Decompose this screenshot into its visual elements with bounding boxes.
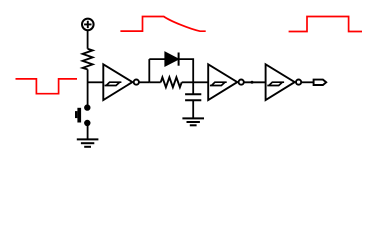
junction dot on wire: [251, 81, 254, 84]
diode D1: [165, 53, 178, 66]
wire V1 to resistor R1: [87, 30, 89, 48]
wire node B down to capacitor C1: [192, 82, 194, 94]
schmitt inverter U1: [103, 64, 139, 100]
wire node A to resistor R2: [149, 81, 160, 83]
schmitt inverter U3: [266, 64, 302, 100]
wire U1 output to node A: [139, 81, 149, 83]
output pin: [314, 80, 327, 85]
wire node B to inverter U2 input: [193, 81, 208, 83]
wire R1 to switch node: [87, 69, 89, 107]
wire R2 to node B: [182, 81, 194, 83]
red capacitor waveform (pulse with RC decay): [120, 17, 205, 32]
wire diode cathode to node B: [179, 59, 194, 82]
wire node A up to diode branch: [148, 59, 150, 82]
wire U3 output to output pin: [301, 81, 313, 83]
capacitor C1: [185, 94, 201, 100]
wire to diode D1 anode: [149, 58, 165, 60]
schmitt inverter U2: [208, 64, 244, 100]
wire switch to ground: [87, 123, 89, 139]
red output waveform (clean pulse): [289, 17, 362, 32]
resistor R2: [161, 77, 182, 87]
ground G1: [77, 139, 99, 146]
ground G2: [182, 118, 204, 125]
wire U2 output to U3 input: [244, 81, 266, 83]
push switch S1: [75, 105, 90, 125]
resistor R1: [83, 49, 93, 70]
wire C1 to ground: [192, 100, 194, 118]
wire node to inverter U1 input: [88, 81, 104, 83]
red input waveform (negative pulse): [16, 79, 78, 94]
voltage source V1: [82, 19, 94, 31]
